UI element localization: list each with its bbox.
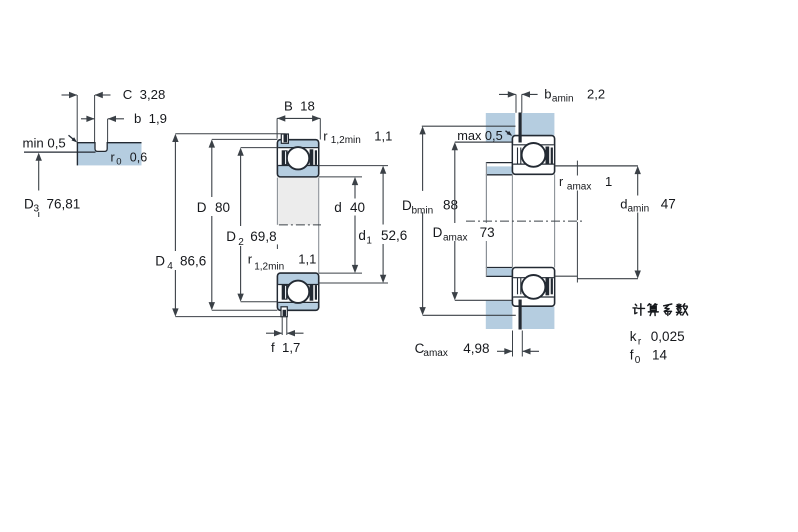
svg-text:min 0,5: min 0,5 bbox=[23, 136, 66, 151]
svg-text:1: 1 bbox=[605, 174, 612, 189]
svg-text:f: f bbox=[630, 348, 634, 363]
svg-text:0,025: 0,025 bbox=[651, 329, 685, 344]
svg-text:r: r bbox=[111, 150, 115, 164]
svg-text:f 1,7: f 1,7 bbox=[271, 340, 300, 355]
svg-text:amax: amax bbox=[567, 181, 591, 192]
svg-text:amin: amin bbox=[552, 94, 574, 105]
svg-text:D: D bbox=[155, 253, 165, 268]
svg-text:86,6: 86,6 bbox=[180, 253, 206, 268]
svg-text:1,1: 1,1 bbox=[374, 128, 392, 143]
svg-text:max 0,5: max 0,5 bbox=[457, 128, 503, 143]
svg-text:14: 14 bbox=[652, 348, 668, 363]
svg-text:2: 2 bbox=[238, 237, 244, 248]
svg-text:d: d bbox=[620, 196, 627, 211]
svg-text:1: 1 bbox=[366, 236, 372, 247]
svg-text:2,2: 2,2 bbox=[587, 86, 605, 101]
svg-text:D: D bbox=[402, 198, 412, 213]
svg-text:3: 3 bbox=[34, 204, 40, 215]
svg-text:80: 80 bbox=[215, 200, 230, 215]
svg-text:d: d bbox=[358, 228, 366, 243]
svg-text:0,6: 0,6 bbox=[130, 150, 147, 164]
svg-text:73: 73 bbox=[480, 225, 495, 240]
svg-text:1,1: 1,1 bbox=[298, 252, 316, 267]
svg-text:k: k bbox=[630, 329, 637, 344]
svg-text:bmin: bmin bbox=[412, 205, 434, 216]
svg-text:r: r bbox=[248, 252, 253, 267]
svg-text:D: D bbox=[197, 200, 207, 215]
svg-text:amax: amax bbox=[423, 348, 447, 359]
svg-text:D: D bbox=[433, 225, 443, 240]
svg-text:D: D bbox=[226, 229, 236, 244]
svg-text:4: 4 bbox=[167, 261, 173, 272]
svg-text:r: r bbox=[323, 128, 328, 143]
svg-text:amin: amin bbox=[628, 204, 650, 215]
svg-text:C 3,28: C 3,28 bbox=[123, 87, 166, 102]
svg-text:B 18: B 18 bbox=[284, 99, 315, 114]
svg-text:d: d bbox=[334, 200, 342, 215]
svg-text:b: b bbox=[544, 86, 551, 101]
svg-text:1,2min: 1,2min bbox=[331, 135, 361, 146]
svg-text:47: 47 bbox=[661, 196, 676, 211]
svg-text:1,2min: 1,2min bbox=[254, 262, 284, 273]
svg-text:40: 40 bbox=[350, 200, 365, 215]
svg-text:0: 0 bbox=[116, 157, 121, 168]
svg-text:amax: amax bbox=[443, 232, 467, 243]
svg-text:r: r bbox=[559, 175, 563, 189]
svg-text:4,98: 4,98 bbox=[463, 341, 489, 356]
svg-text:88: 88 bbox=[443, 198, 458, 213]
svg-text:69,8: 69,8 bbox=[250, 229, 276, 244]
svg-text:b 1,9: b 1,9 bbox=[134, 111, 167, 126]
svg-text:0: 0 bbox=[635, 355, 641, 366]
svg-text:D: D bbox=[24, 196, 34, 211]
svg-text:52,6: 52,6 bbox=[381, 228, 407, 243]
svg-text:76,81: 76,81 bbox=[47, 196, 81, 211]
